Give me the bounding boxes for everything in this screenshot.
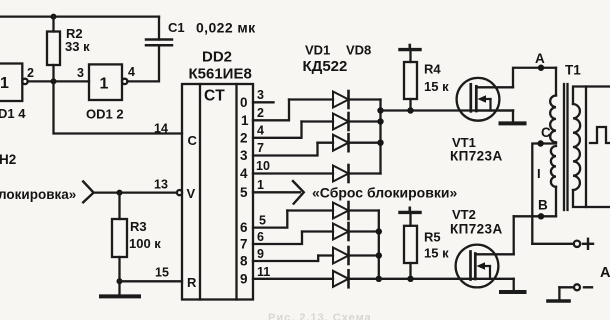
load box with pulse symbol (586, 87, 610, 208)
resistor R2 (47, 17, 90, 82)
node C center tap (532, 125, 556, 244)
node junction blocking / R3 (117, 190, 123, 196)
core (563, 84, 565, 210)
gate DD1.4 (0, 64, 34, 122)
svg-text:1: 1 (0, 75, 9, 92)
node bus junction VD7 (376, 252, 382, 258)
svg-text:«Сброс блокировки»: «Сброс блокировки» (312, 185, 457, 201)
wire DD2 out9 pin 11 to VD8 (253, 278, 333, 280)
svg-text:1: 1 (257, 178, 264, 192)
svg-text:OD1 2: OD1 2 (86, 107, 124, 122)
svg-text:7: 7 (257, 141, 264, 155)
svg-text:VT2: VT2 (452, 207, 476, 222)
primary winding lower section C-B (551, 146, 556, 187)
svg-text:4: 4 (257, 124, 264, 138)
diode VD7 (318, 247, 379, 264)
svg-text:КД522: КД522 (303, 58, 348, 75)
power bar for R5 (400, 211, 420, 214)
wire bus to VT1 gate (381, 109, 514, 111)
wire VT1 drain to node A (513, 68, 556, 88)
svg-text:2: 2 (240, 131, 248, 146)
node bus junction VD6 (376, 228, 382, 234)
svg-text:15 к: 15 к (424, 79, 449, 94)
transistor VT2 КП723А (450, 207, 514, 287)
svg-text:100 к: 100 к (129, 236, 161, 251)
wire arrow to DD2 pin 13 (V input) (93, 191, 179, 193)
wire VT1 source to ground (512, 111, 514, 122)
wire DD2 out3 pin 7 to VD3 (253, 143, 318, 156)
svg-text:9: 9 (257, 247, 264, 261)
resistor R4 (404, 50, 449, 111)
svg-text:R: R (187, 275, 197, 290)
node junction R5 bottom (407, 276, 413, 282)
node A (538, 65, 544, 71)
diode VD6 (302, 223, 379, 240)
node junction R4 bottom (407, 107, 413, 113)
svg-text:0,022 мк: 0,022 мк (196, 20, 256, 36)
svg-text:7: 7 (240, 237, 248, 252)
diode VD2 (302, 113, 381, 130)
svg-text:D1 4: D1 4 (0, 106, 26, 121)
transistor VT1 КП723А (450, 78, 513, 164)
op-amp... counter DD2 К561ИЕ8 (177, 49, 253, 300)
svg-text:6: 6 (240, 220, 248, 235)
wire bottom diode bus (378, 211, 380, 279)
svg-text:Рис. 2.13. Схема: Рис. 2.13. Схема (268, 312, 372, 320)
diode VD8 (333, 270, 379, 287)
svg-text:V: V (187, 186, 196, 201)
wire DD1.2 output to C1 (127, 45, 159, 81)
wire DD2 out2 pin 4 to VD2 (253, 122, 302, 138)
svg-text:VD1: VD1 (305, 43, 330, 58)
node junction R3 / pin15 / ground (117, 278, 123, 284)
wire R3 to DD2 pin 15 (R input) (120, 280, 183, 282)
diode VD5 (287, 202, 379, 219)
wire top diode bus (379, 100, 381, 174)
svg-text:3: 3 (77, 66, 84, 80)
node bus junction to R5/VT2 (376, 276, 382, 282)
diode VD1 (289, 91, 381, 108)
svg-text:2: 2 (27, 66, 34, 80)
wire bus to VT2 gate (379, 278, 514, 280)
ground at terminal − (548, 299, 569, 303)
svg-text:КП723А: КП723А (450, 222, 503, 237)
svg-text:КП723А: КП723А (450, 149, 503, 164)
node junction DD1.4 out / R2 / DD1.2 in (51, 78, 57, 84)
svg-text:5: 5 (240, 185, 248, 200)
capacitor C1 (146, 17, 256, 46)
svg-text:A: A (535, 51, 545, 66)
svg-text:4: 4 (128, 65, 135, 79)
wire node to DD2 pin 14 (C input) (54, 81, 183, 133)
terminal − (548, 284, 592, 301)
wire VT2 source to ground (513, 279, 515, 290)
svg-text:15 к: 15 к (424, 246, 449, 261)
wire DD1.4 output to node (28, 80, 89, 82)
svg-text:C: C (541, 125, 551, 140)
wire DD2 out8 pin 9 to VD7 (253, 256, 318, 262)
svg-text:DD2: DD2 (202, 49, 232, 66)
svg-text:C1: C1 (168, 20, 185, 35)
wire DD2 out0 pin 3 stub (253, 101, 274, 103)
svg-text:К561ИЕ8: К561ИЕ8 (189, 66, 252, 83)
svg-text:C: C (188, 133, 198, 148)
resistor R3 (112, 193, 161, 282)
node bus junction to R4/VT1 (377, 107, 383, 113)
svg-text:2: 2 (257, 106, 264, 120)
svg-text:15: 15 (155, 266, 169, 280)
svg-text:8: 8 (240, 254, 248, 269)
power bar for R4 (400, 48, 420, 51)
node Сброс блокировки arrow (293, 181, 304, 204)
svg-text:9: 9 (240, 272, 248, 287)
svg-text:1: 1 (241, 113, 249, 128)
svg-text:Т1: Т1 (565, 63, 581, 78)
wire DD2 out5 pin 1 to reset arrow (253, 191, 300, 193)
diode VD3 (318, 134, 381, 151)
transformer T1 (550, 63, 586, 217)
svg-text:10: 10 (256, 159, 270, 173)
gate DD1.2 (77, 64, 135, 121)
svg-text:R3: R3 (130, 219, 147, 234)
svg-text:0: 0 (240, 95, 248, 110)
wire DD2 out6 pin 5 to VD5 (253, 211, 287, 228)
svg-text:5: 5 (259, 214, 266, 228)
node junction top rail / R2 (51, 14, 57, 20)
svg-text:Н2: Н2 (0, 152, 16, 167)
svg-text:3: 3 (240, 148, 248, 163)
node bus junction VD2 (377, 118, 383, 124)
svg-text:локировка»: локировка» (0, 187, 76, 202)
svg-text:4: 4 (240, 166, 248, 181)
svg-text:13: 13 (154, 178, 168, 192)
ground at VT1 (501, 121, 525, 125)
svg-text:А: А (600, 265, 610, 281)
svg-text:1: 1 (100, 76, 109, 93)
secondary winding (573, 104, 580, 190)
svg-text:14: 14 (154, 122, 168, 136)
node B (514, 198, 556, 220)
wire VT2 drain to node B (513, 216, 515, 254)
wire blocking input arrow (83, 182, 93, 203)
node bus junction VD3 (377, 140, 383, 146)
wire top rail (0, 15, 159, 17)
svg-text:VD8: VD8 (346, 43, 371, 58)
wire DD2 out4 pin 10 to VD4 (253, 172, 333, 174)
diode VD4 (333, 165, 381, 182)
svg-text:33 к: 33 к (65, 39, 90, 54)
resistor R5 (404, 212, 449, 278)
terminal + (532, 239, 593, 249)
svg-text:R5: R5 (424, 230, 441, 245)
svg-text:3: 3 (257, 88, 264, 102)
svg-text:I: I (537, 166, 541, 181)
wire DD2 out1 pin 2 to VD1 (253, 100, 289, 121)
primary winding upper section A-C (555, 68, 557, 96)
svg-text:11: 11 (257, 265, 270, 279)
ground at VT2 (501, 290, 525, 294)
svg-text:6: 6 (257, 230, 264, 244)
svg-text:B: B (538, 198, 548, 213)
svg-text:R4: R4 (424, 62, 441, 77)
ground at R3 (101, 281, 139, 296)
wire DD2 out7 pin 6 to VD6 (253, 232, 302, 245)
svg-text:CT: CT (204, 88, 225, 105)
